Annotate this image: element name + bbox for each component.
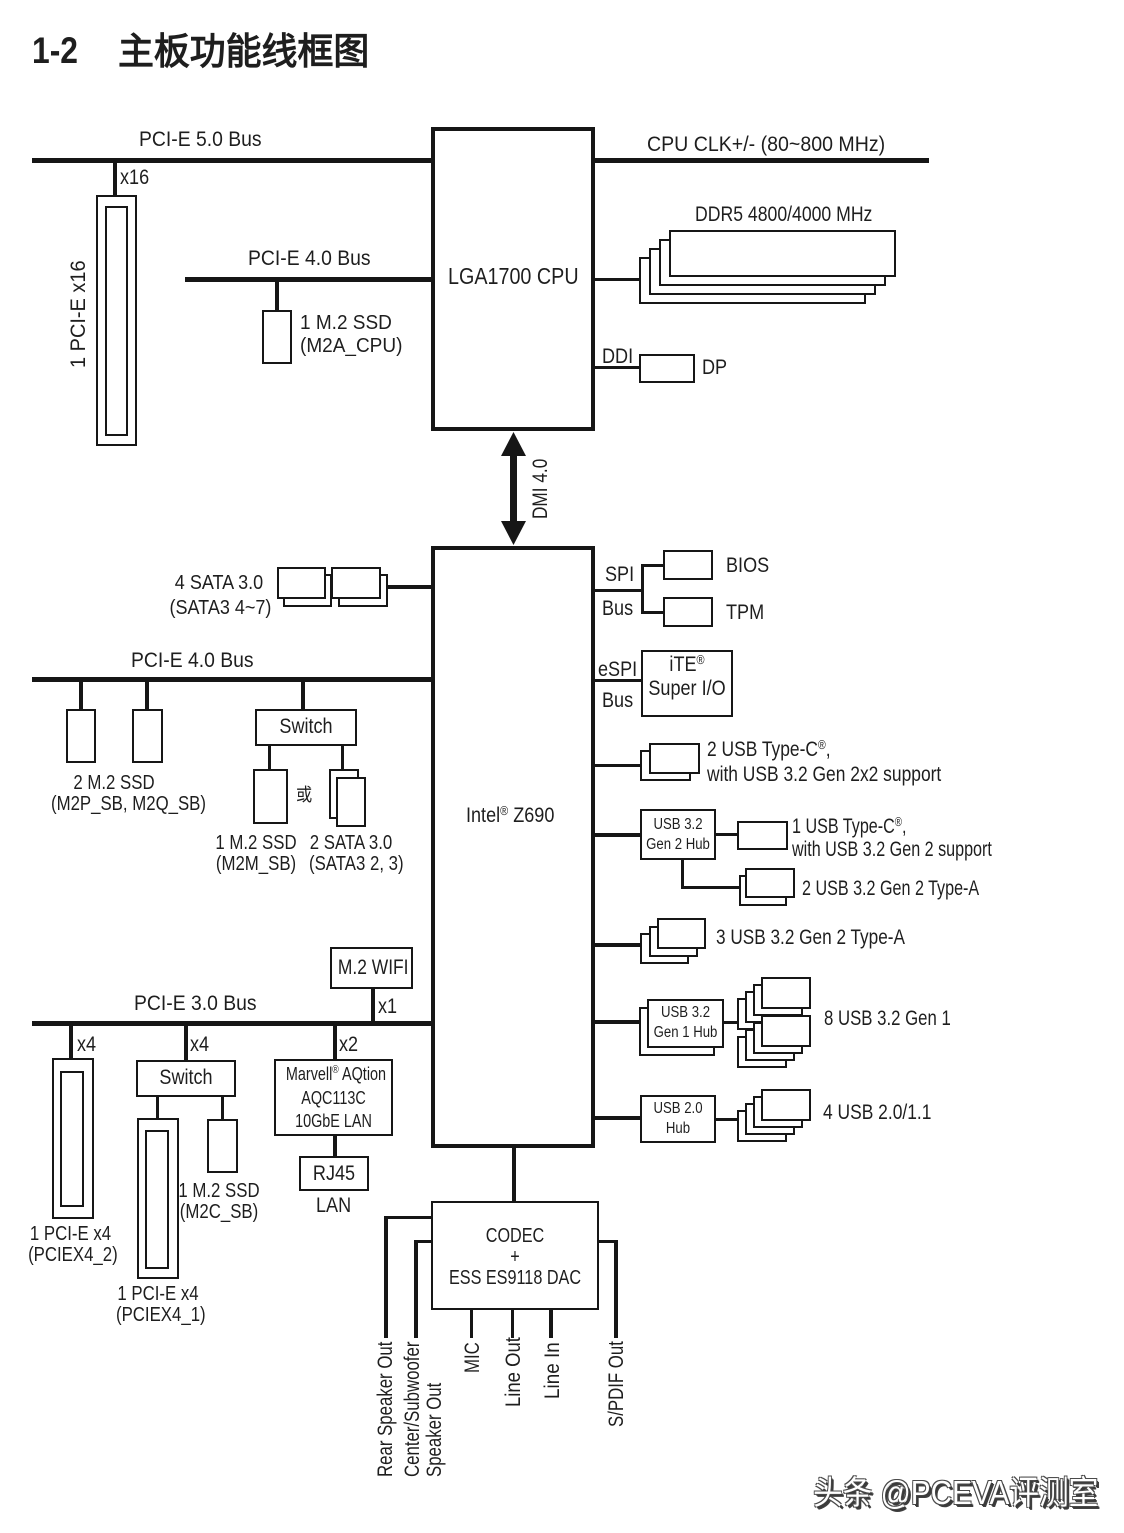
wire PCI-E 4.0 bus (CPU) label [248, 247, 371, 270]
box SATA pair1 front [277, 567, 326, 599]
box USB 2.0 Hub [640, 1095, 716, 1143]
box TPM [663, 597, 713, 627]
arrow DMI 4.0 [500, 432, 527, 545]
label BIOS [726, 554, 769, 577]
label LAN [316, 1194, 351, 1217]
wire CPU CLK label [647, 133, 885, 156]
wire rear speaker vertical [384, 1216, 388, 1338]
label iTE Super I/O [648, 652, 725, 700]
box SATA23 shadow [329, 769, 359, 819]
wire switch drop left [268, 746, 271, 769]
box 2xTypeC shadow [640, 750, 691, 781]
box 8usb top c [745, 991, 795, 1023]
wire hub down horizontal [681, 886, 739, 889]
wire TPM stub [641, 611, 663, 614]
box 3 USB stack b [649, 926, 698, 957]
label DMI 4.0 (rotated) [529, 459, 552, 519]
label 2 USB Type-C [707, 737, 941, 786]
wire rear speaker horizontal [384, 1216, 431, 1219]
slot PCIEX4_2 inner [60, 1071, 84, 1207]
wire x16 drop [113, 163, 117, 195]
wire switch2 drop right [221, 1097, 224, 1119]
box M2Q_SB [132, 709, 163, 763]
label eSPI [598, 658, 637, 681]
label M.2 WIFI [338, 956, 405, 979]
box RJ45 [299, 1156, 369, 1191]
box 8usb bot d [737, 1036, 787, 1068]
label Rear Speaker Out (rotated) [374, 1342, 397, 1477]
box DP [639, 354, 695, 383]
box 4usb c [745, 1103, 795, 1135]
wire SATA to chipset [386, 585, 431, 589]
box M.2 WIFI [330, 947, 413, 989]
label USB 3.2 Gen 2 Hub [646, 815, 711, 855]
box SATA pair2 shadow [338, 574, 388, 607]
wire eSPI [595, 679, 641, 682]
label x1 [378, 995, 397, 1018]
wire usb2hub to stack [716, 1118, 737, 1121]
watermark [813, 1474, 1098, 1512]
box USB 3.2 Gen 2 Hub [640, 809, 716, 860]
box 4usb a [761, 1089, 811, 1121]
label S/PDIF Out (rotated) [605, 1341, 628, 1427]
label DDI [602, 345, 633, 368]
label Marvell [286, 1063, 381, 1134]
box DDR5 stack 2 [659, 239, 886, 286]
wire wifi drop [371, 989, 375, 1021]
box Marvell LAN [274, 1059, 393, 1136]
label 1 PCI-E x16 (rotated) [67, 260, 90, 368]
label USB 3.2 Gen 1 Hub [653, 1003, 718, 1043]
wire gen1hub to stack [724, 1021, 738, 1024]
label x4 a [77, 1033, 96, 1056]
wire BIOS stub [641, 564, 663, 567]
box 4usb b [753, 1096, 803, 1128]
label 1 USB Type-C [792, 815, 992, 861]
box 2 USB TypeA shadow [739, 875, 787, 906]
label Intel Z690 [466, 804, 554, 827]
wire marvell to rj45 [333, 1136, 337, 1156]
box SATA23 front [336, 777, 366, 827]
wire switch2 drop left [156, 1097, 159, 1118]
slot PCIEX4_1 outer [137, 1118, 179, 1279]
label 3 USB 3.2 Gen 2 Type-A [716, 926, 905, 949]
wire PCI-E 5.0 bus label [139, 128, 262, 151]
wire center sub horizontal [414, 1240, 431, 1243]
label 2 M.2 SSD [51, 773, 177, 815]
box USB 3.2 Gen 1 Hub front [647, 999, 724, 1048]
label PCIEX4_2 [28, 1224, 113, 1266]
label Line Out (rotated) [502, 1337, 525, 1407]
node x16 label [120, 166, 149, 189]
wire usb2hub connection [595, 1116, 640, 1120]
wire line out [511, 1310, 515, 1338]
wire gen2hub connection [595, 833, 640, 837]
label PCIEX4_1 [116, 1284, 200, 1326]
wire switch drop right [341, 746, 344, 769]
label PCI-E 4.0 Bus (chipset) [131, 649, 254, 672]
wire drop M2Q [145, 682, 149, 709]
wire drop M2P [79, 682, 83, 709]
box iTE Super I/O [641, 650, 733, 717]
wire hub down [681, 860, 684, 889]
label x4 b [190, 1033, 209, 1056]
box 2 USB TypeA front [745, 868, 795, 898]
wire PCI-E 4.0 bus [32, 677, 431, 682]
box 2xTypeC front [649, 743, 700, 774]
label 8 USB 3.2 Gen 1 [824, 1007, 951, 1030]
wire DDI [595, 366, 639, 369]
wire CPU CLK [595, 158, 929, 163]
wire line in [549, 1310, 553, 1338]
label 2 SATA 3.0 [309, 833, 393, 875]
wire SPI horizontal [595, 589, 644, 592]
label DDR5 [695, 203, 872, 226]
label RJ45 [305, 1162, 364, 1185]
box 8usb top b [753, 984, 803, 1016]
box 8usb top a [761, 977, 811, 1009]
wire spdif vertical [614, 1240, 618, 1338]
box DDR5 stack 3 [649, 248, 876, 295]
label eSPI Bus [602, 689, 633, 712]
wire center sub vertical [414, 1240, 418, 1338]
label M2A_CPU [300, 312, 402, 358]
wire typec2 connection [595, 764, 640, 767]
box DDR5 stack 1 [669, 230, 896, 277]
label x2 [339, 1033, 358, 1056]
box Switch (pcie) [136, 1060, 236, 1097]
box SATA pair1 shadow [283, 574, 332, 607]
wire M2A drop [275, 282, 279, 310]
label Switch 2 [144, 1066, 228, 1089]
wire DDR connection [595, 278, 640, 281]
wire hub to typec1 [716, 833, 737, 836]
label MIC (rotated) [461, 1342, 484, 1373]
wire drop pciex4_2 [69, 1026, 73, 1058]
box M.2 SSD M2A_CPU [262, 310, 292, 364]
box M2P_SB [66, 709, 96, 763]
SECTION: title [32, 32, 78, 70]
wire drop switch [301, 682, 305, 709]
label Line In (rotated) [541, 1342, 564, 1399]
wire PCI-E 3.0 bus [32, 1021, 431, 1026]
box 3 USB stack a [657, 918, 706, 949]
wire PCI-E 5.0 bus [32, 158, 431, 163]
wire drop lan [333, 1026, 337, 1059]
wire spdif horizontal [599, 1240, 617, 1243]
label LGA1700 CPU [448, 265, 579, 288]
box BIOS [663, 550, 713, 580]
wire SPI vertical [641, 564, 644, 614]
slot PCIEX4_2 outer [52, 1058, 94, 1219]
slot PCIEX4_1 inner [145, 1130, 169, 1269]
label SPI Bus [602, 597, 633, 620]
label USB 2.0 Hub [646, 1099, 711, 1139]
box M2M_SB [253, 769, 288, 824]
label PCI-E 3.0 Bus [134, 992, 257, 1015]
wire chipset to codec [512, 1148, 516, 1201]
slot 1 PCI-E x16 inner [105, 206, 128, 436]
wire drop switch2 [184, 1026, 188, 1060]
box Switch (M.2/SATA) [255, 709, 357, 746]
slot 1 PCI-E x16 outer [96, 195, 137, 446]
box 8usb bot b [753, 1022, 803, 1054]
label DP [702, 356, 727, 379]
wire mic [470, 1310, 474, 1338]
box 8usb top d [737, 998, 787, 1030]
label or [296, 784, 312, 807]
label 2 USB 3.2 Gen 2 Type-A [802, 877, 979, 900]
box DDR5 stack 4 [639, 257, 866, 304]
box LGA1700 CPU [431, 127, 595, 431]
box 3 USB stack c [640, 933, 689, 964]
label TPM [726, 601, 764, 624]
box 8usb bot a [761, 1015, 811, 1047]
label 4 USB 2.0/1.1 [823, 1101, 931, 1124]
label 1 M.2 SSD M2M [214, 833, 298, 875]
label SPI [605, 563, 634, 586]
label M2C_SB [177, 1181, 261, 1223]
box USB 3.2 Gen 1 Hub shadow [639, 1007, 715, 1056]
wire gen1hub connection [595, 1020, 639, 1024]
box CODEC [431, 1201, 599, 1310]
wire 3usb connection [595, 943, 640, 947]
box Intel Z690 chipset [431, 546, 595, 1148]
box SATA pair2 front [331, 567, 381, 599]
box 8usb bot c [745, 1029, 795, 1061]
box 4usb d [737, 1110, 787, 1142]
box M2C_SB [207, 1119, 238, 1173]
label Switch [263, 715, 349, 738]
label CODEC [447, 1226, 583, 1289]
label 4 SATA 3.0 [170, 571, 269, 620]
label Center/Subwoofer Speaker Out (rotated) [402, 1342, 446, 1477]
box 1 USB Type-C [737, 821, 788, 850]
wire PCI-E 4.0 bus (CPU) [185, 277, 431, 282]
